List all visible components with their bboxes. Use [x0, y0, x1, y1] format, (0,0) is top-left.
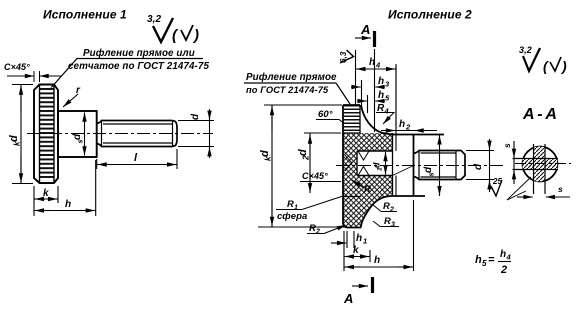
section arrow A (bottom) — [343, 277, 373, 306]
svg-text:h: h — [378, 76, 384, 87]
svg-text:h: h — [475, 254, 482, 266]
svg-text:R: R — [383, 201, 390, 212]
svg-text:k: k — [353, 245, 359, 256]
shank (middle) — [414, 151, 466, 180]
roughness 25 mark with leaders (A-A) — [491, 177, 531, 200]
svg-text:3: 3 — [385, 80, 390, 89]
threaded shank (left) — [97, 121, 177, 147]
svg-text:Рифление прямое: Рифление прямое — [246, 72, 337, 83]
dimension l (left) — [97, 149, 177, 169]
label R2 bottom-left with leader — [307, 223, 346, 236]
svg-text:d: d — [423, 166, 434, 173]
svg-text:5: 5 — [482, 259, 487, 268]
svg-text:C×45°: C×45° — [4, 62, 30, 72]
dimension d_s (left) — [72, 113, 85, 156]
dimension h (left) — [34, 160, 96, 216]
svg-text:(: ( — [172, 27, 179, 44]
dimension d_2 (middle) — [297, 133, 341, 193]
roughness mark 3,2 (v) top left — [147, 14, 199, 44]
roughness mark 3,2 (v) top right — [519, 45, 567, 74]
dimension h2 — [381, 119, 437, 132]
centerline (left screw axis) — [27, 133, 213, 135]
svg-text:): ) — [560, 58, 567, 74]
svg-text:3,2: 3,2 — [147, 14, 162, 25]
svg-text:A: A — [343, 291, 354, 306]
svg-text:d: d — [473, 163, 484, 170]
svg-text:h: h — [65, 199, 71, 210]
roughness 6,3 rotated (middle top) — [339, 50, 354, 63]
svg-text:Исполнение 1: Исполнение 1 — [43, 8, 127, 22]
svg-text:сфера: сфера — [277, 211, 307, 222]
svg-text:(: ( — [543, 58, 549, 74]
svg-text:R: R — [309, 223, 316, 234]
svg-text:3,2: 3,2 — [519, 45, 532, 55]
svg-text:сетчатое по ГОСТ 21474-75: сетчатое по ГОСТ 21474-75 — [68, 61, 209, 72]
A-A slot lines — [513, 144, 559, 194]
label C x 45 (middle) with leader — [300, 171, 341, 182]
dimension h (middle) — [344, 200, 414, 271]
label R with leader (cavity bottom radius) — [352, 180, 371, 195]
svg-text:Исполнение 2: Исполнение 2 — [388, 8, 472, 22]
note knurling GOST (middle) — [244, 72, 350, 104]
svg-text:C×45°: C×45° — [302, 171, 328, 181]
svg-text:4: 4 — [384, 107, 390, 116]
svg-text:4: 4 — [506, 253, 512, 262]
svg-text:A: A — [360, 22, 371, 37]
svg-text:5: 5 — [385, 94, 390, 103]
svg-text:60°: 60° — [318, 109, 333, 120]
dimension k (left) — [34, 186, 58, 216]
svg-text:1: 1 — [377, 167, 384, 171]
labels R2 R3 right with leaders — [372, 201, 399, 229]
chamfer dimension (left head) — [7, 71, 62, 82]
svg-text:h: h — [399, 119, 405, 130]
svg-text:2: 2 — [315, 229, 320, 236]
svg-text:2: 2 — [302, 155, 311, 161]
centerline (middle screw axis) — [336, 165, 503, 167]
svg-text:h: h — [378, 90, 384, 101]
note knurling GOST (left) — [42, 48, 209, 98]
svg-text:k: k — [43, 188, 49, 199]
svg-text:): ) — [192, 27, 199, 44]
svg-text:s: s — [558, 184, 563, 194]
A-A centerline — [515, 163, 571, 165]
knurled head (left, Исполнение 1) — [34, 85, 58, 184]
svg-text:h: h — [374, 255, 380, 266]
svg-text:2: 2 — [500, 264, 507, 276]
dimension d (middle) — [466, 139, 494, 192]
dimension s (left of A-A) — [502, 141, 514, 184]
label 60° with leader — [316, 109, 345, 124]
svg-text:R: R — [287, 199, 294, 210]
cone transition to shank hole — [393, 166, 414, 176]
svg-text:4: 4 — [375, 61, 381, 70]
head section hatch (Исполнение 2) — [343, 133, 393, 228]
shoulder (left) — [58, 111, 97, 157]
dimension d_k (middle) — [258, 105, 347, 227]
svg-text:A-A: A-A — [522, 106, 557, 123]
knurled band (middle head) — [344, 106, 360, 133]
svg-text:по ГОСТ 21474-75: по ГОСТ 21474-75 — [246, 85, 329, 95]
formula h5 = h4/2 — [475, 249, 512, 276]
svg-text:d: d — [8, 135, 20, 142]
svg-text:=: = — [488, 254, 495, 266]
dimension h5 — [357, 90, 390, 113]
svg-text:Рифление прямое или: Рифление прямое или — [83, 48, 195, 59]
dimension d_s (middle) — [392, 135, 440, 197]
svg-text:d: d — [297, 149, 309, 156]
svg-text:R: R — [384, 216, 391, 227]
A-A section view circle — [523, 147, 558, 182]
dimension d (left) — [178, 109, 214, 158]
cavity d1 outline — [345, 151, 393, 176]
svg-text:s: s — [76, 139, 85, 143]
svg-text:s: s — [502, 143, 512, 148]
dimension d1 (in cavity) — [372, 152, 386, 175]
label R4 with leader — [376, 103, 394, 124]
svg-text:r: r — [76, 85, 81, 96]
fillet label r (left) — [63, 85, 81, 107]
svg-text:s: s — [427, 172, 436, 176]
dimension h4 — [356, 50, 397, 131]
svg-text:R: R — [364, 184, 371, 195]
slot wall lines — [392, 133, 394, 196]
svg-text:d: d — [190, 113, 201, 120]
svg-text:d: d — [259, 150, 271, 157]
dimension h1 — [331, 231, 367, 248]
svg-text:1: 1 — [363, 237, 367, 246]
svg-text:k: k — [264, 156, 273, 161]
svg-text:l: l — [134, 152, 138, 164]
label R1 сфера with leader — [276, 196, 343, 222]
dimension s (below A-A) — [517, 184, 570, 197]
svg-text:3: 3 — [391, 222, 395, 229]
dimension h3 — [351, 49, 390, 132]
svg-text:d: d — [372, 162, 382, 168]
A-A cross hatched slots — [523, 147, 558, 182]
head outline (Исполнение 2) — [343, 105, 444, 228]
svg-text:d: d — [72, 133, 83, 140]
svg-text:2: 2 — [389, 207, 394, 214]
dimension k (middle) — [344, 231, 370, 271]
section arrow A (top) — [355, 22, 375, 47]
svg-text:k: k — [13, 141, 22, 146]
svg-text:h: h — [500, 249, 506, 260]
dimension d_k (left) — [8, 85, 33, 184]
svg-text:h: h — [356, 233, 362, 244]
